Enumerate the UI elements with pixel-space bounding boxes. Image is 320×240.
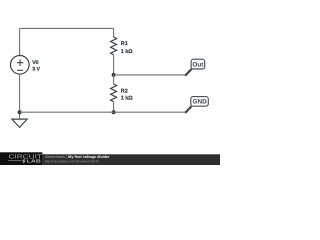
node flag GND bbox=[191, 97, 209, 107]
wire top (V0 top to R1 top) bbox=[20, 27, 114, 29]
node junction rail / left wire bbox=[18, 110, 22, 114]
ground bbox=[12, 119, 27, 127]
svg-text:GND: GND bbox=[192, 99, 207, 106]
svg-text:LAB: LAB bbox=[27, 158, 42, 163]
node flag Out bbox=[191, 59, 205, 69]
svg-text:V0: V0 bbox=[32, 60, 38, 66]
wire to Out flag bbox=[114, 74, 186, 76]
resistor R2 bbox=[111, 75, 117, 112]
svg-text:1 kΩ: 1 kΩ bbox=[121, 96, 133, 102]
voltage source V0 bbox=[10, 56, 29, 75]
svg-text:3 V: 3 V bbox=[32, 67, 40, 73]
wire left upper (top wire down to V0 circle) bbox=[19, 28, 21, 55]
svg-text:1 kΩ: 1 kΩ bbox=[121, 49, 133, 55]
wire bottom rail bbox=[20, 111, 186, 113]
footer logo box bbox=[0, 152, 42, 165]
resistor R1 bbox=[111, 28, 117, 75]
Out flag tail bbox=[185, 69, 192, 76]
node junction R2 bottom / rail bbox=[112, 110, 116, 114]
svg-text:R2: R2 bbox=[121, 88, 128, 94]
wire left lower (V0 bottom to ground) bbox=[19, 74, 21, 119]
svg-text:R1: R1 bbox=[121, 41, 128, 47]
node junction R1/R2/Out bbox=[112, 73, 116, 77]
svg-text:http://circuitlab.com/c/bzw4e2: http://circuitlab.com/c/bzw4e2u/9o7k bbox=[45, 159, 100, 163]
footer info bar bbox=[42, 154, 220, 165]
GND flag tail bbox=[185, 106, 191, 113]
svg-text:Out: Out bbox=[192, 61, 204, 68]
